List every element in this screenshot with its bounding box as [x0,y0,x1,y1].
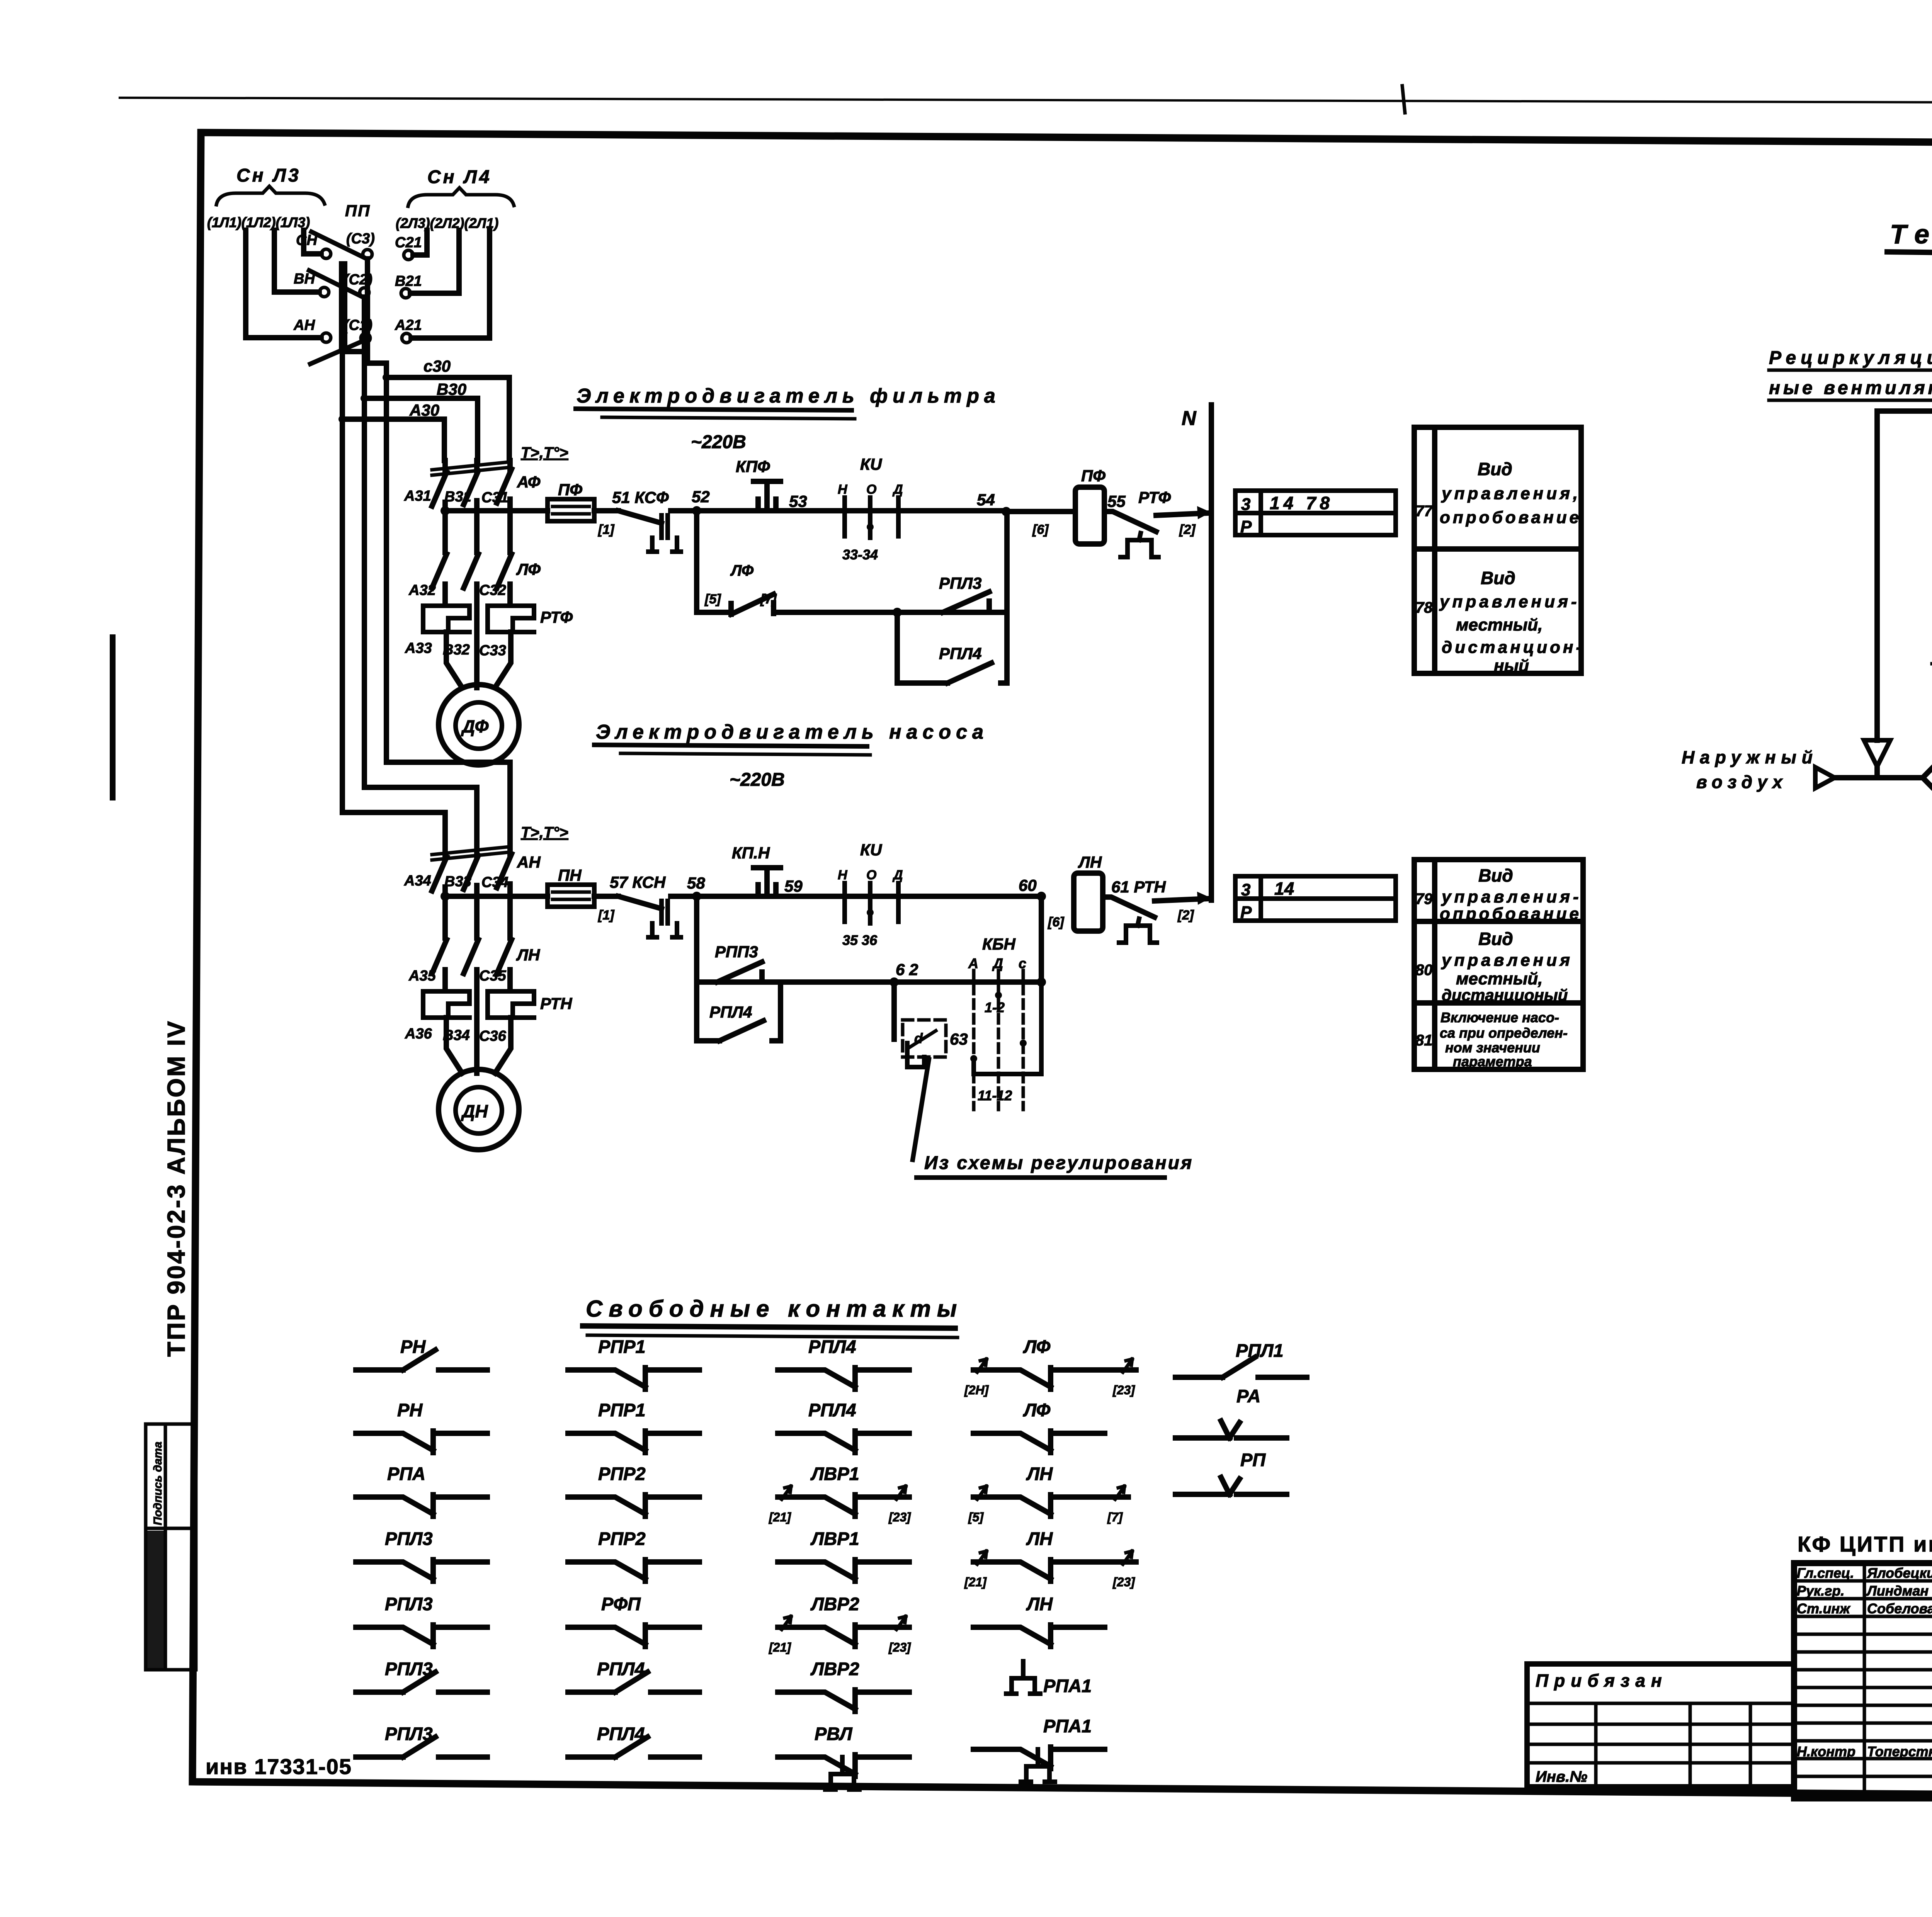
svg-text:дистанционый: дистанционый [1442,986,1568,1004]
main duct to filter [1835,775,1923,780]
svg-text:ПФ: ПФ [558,481,582,499]
wire А30 [342,419,444,461]
junction c30 [383,374,390,381]
brace Сн Л4 [408,188,514,206]
svg-text:А35: А35 [408,968,436,984]
svg-text:(1Л1)(1Л2)(1Л3): (1Л1)(1Л2)(1Л3) [207,214,310,230]
rung wire [594,894,618,899]
svg-text:N: N [1182,407,1197,430]
svg-text:А21: А21 [395,317,422,333]
rung wire left [445,894,548,899]
svg-text:Свободные контакты: Свободные контакты [586,1296,963,1322]
recirculation return duct vertical [1874,411,1880,740]
svg-text:ЛН: ЛН [1026,1594,1053,1614]
main title block outline [1794,1563,1932,1798]
svg-text:РА: РА [1236,1386,1260,1406]
svg-text:КБН: КБН [982,935,1016,953]
terminal circles [321,249,331,258]
outside air intake arrow [1815,767,1835,788]
svg-text:61 РТН: 61 РТН [1111,878,1166,896]
return wire to N [1156,513,1209,515]
svg-text:[23]: [23] [888,1640,911,1654]
svg-text:ЛФ: ЛФ [516,560,541,578]
motor ДФ [439,685,519,765]
ЛН main contact C [497,940,512,991]
svg-text:РПР2: РПР2 [598,1528,646,1549]
contactor blade C [497,461,512,512]
svg-text:инв 17331-05: инв 17331-05 [206,1754,352,1779]
svg-text:опробование: опробование [1440,508,1582,527]
wire up from КБН line to rung [1039,896,1044,982]
svg-text:РПП3: РПП3 [715,943,758,961]
knife blade 3 [310,342,362,364]
svg-text:В33: В33 [444,874,471,890]
svg-text:ЛН: ЛН [516,946,541,964]
svg-text:~220В: ~220В [691,432,746,452]
svg-text:58: 58 [687,874,705,892]
svg-text:ные вентиляторы: ные вентиляторы [1769,378,1932,398]
svg-text:РТН: РТН [540,994,573,1013]
РТФ contact blade [1104,512,1156,532]
return wire to N pump [1155,899,1209,901]
svg-text:В31: В31 [444,489,471,505]
РТФ thermal symbol [1121,533,1158,557]
svg-text:С34: С34 [481,874,509,891]
svg-text:РПЛ4: РПЛ4 [808,1400,856,1420]
svg-text:80: 80 [1415,962,1433,979]
knife blade 2 [309,270,361,296]
svg-text:Собелова: Собелова [1867,1601,1932,1616]
svg-text:Из схемы регулирования: Из схемы регулирования [924,1153,1193,1173]
svg-text:~220В: ~220В [730,770,785,790]
svg-text:Линдман: Линдман [1866,1583,1929,1599]
brace Сн Л3 [216,186,325,205]
ПФ main contact A [432,554,447,605]
svg-text:КU: КU [860,455,883,473]
svg-text:ном значении: ном значении [1445,1040,1540,1055]
svg-text:ный: ный [1494,656,1529,675]
sensor б3 wire down [891,982,897,1039]
svg-text:РПР1: РПР1 [598,1400,646,1420]
svg-text:РПА1: РПА1 [1043,1716,1092,1736]
svg-text:О: О [866,482,876,497]
rung wire through button [697,894,1041,899]
signature columns [1794,1563,1932,1798]
fuse ПФ [548,499,594,521]
bypass left vertical [694,511,699,612]
svg-text:ПН: ПН [558,866,582,884]
svg-text:Р: Р [1240,903,1252,922]
svg-text:РН: РН [400,1336,426,1357]
svg-text:[2]: [2] [1177,908,1194,923]
svg-text:РПЛ3: РПЛ3 [939,574,981,592]
svg-text:[6]: [6] [1032,522,1049,537]
svg-text:воздух: воздух [1696,772,1787,792]
svg-text:6 2: 6 2 [896,960,918,979]
svg-text:Н: Н [838,482,848,497]
svg-text:3: 3 [1241,880,1250,899]
wire В21 to 2Л2 [410,230,459,293]
svg-text:С21: С21 [395,235,422,251]
thermal element РТФ right [488,606,534,632]
svg-text:Электродвигатель фильтра: Электродвигатель фильтра [577,385,1000,407]
svg-text:управления-: управления- [1441,887,1582,906]
junction at КБН [1037,977,1046,987]
ПФ main contact B [464,554,478,657]
svg-text:РПР2: РПР2 [598,1463,646,1484]
svg-text:79: 79 [1415,891,1433,908]
junction РПЛ4 branch [893,608,902,617]
svg-text:Ялобецкий: Ялобецкий [1867,1565,1932,1581]
wire С1 down [342,343,366,352]
svg-text:Д: Д [892,868,903,882]
svg-text:Н: Н [838,868,848,882]
rung wire [671,894,697,899]
coil ПФ [1075,487,1104,544]
svg-text:d: d [914,1030,923,1046]
svg-text:ЛФ: ЛФ [730,562,754,579]
junction A30 [338,415,346,423]
svg-text:Рециркуляцион-: Рециркуляцион- [1769,348,1932,368]
РПЛ4 loop left vertical pump [694,982,699,1041]
svg-text:А34: А34 [404,873,431,889]
svg-text:ДФ: ДФ [461,716,489,736]
svg-text:С36: С36 [479,1028,507,1044]
wire С3 down [367,259,386,363]
drawing frame [192,133,1932,1799]
svg-text:А33: А33 [405,640,432,656]
svg-text:59: 59 [784,877,803,895]
svg-text:Гл.спец.: Гл.спец. [1797,1565,1854,1581]
svg-text:ДН: ДН [461,1101,488,1121]
left margin small table [146,1424,196,1670]
left margin stamp bar [110,634,116,800]
motor feed wires [446,632,511,688]
wire С21 to 2Л3 [413,230,427,255]
switch ПП bar [339,261,347,351]
svg-text:РН: РН [397,1400,423,1420]
thermal element РТН right [488,991,534,1018]
svg-text:Электродвигатель насоса: Электродвигатель насоса [596,721,988,743]
svg-text:81: 81 [1415,1032,1433,1049]
svg-text:КП.Н: КП.Н [732,844,770,862]
svg-text:Вид: Вид [1478,929,1513,949]
ПФ main contact C [497,554,512,605]
bus A phase [342,352,445,841]
svg-text:52: 52 [692,488,710,506]
svg-text:А36: А36 [405,1026,432,1042]
svg-text:[21]: [21] [769,1640,791,1654]
svg-text:С35: С35 [479,968,507,984]
svg-text:Сн Л4: Сн Л4 [427,167,492,187]
svg-text:местный,: местный, [1456,969,1543,988]
svg-text:управления,: управления, [1441,484,1581,503]
phase columns down to ЛН contacts [445,896,510,938]
contactor blade A [432,461,447,512]
svg-text:РПЛ3: РПЛ3 [385,1528,433,1549]
top tick mark [1402,86,1405,113]
svg-text:35 36: 35 36 [842,932,878,948]
wire 1Л1 to АН [246,230,321,338]
svg-text:ПП: ПП [345,202,371,220]
ЛН main contact B [464,940,478,1042]
svg-text:Т>,Т°>: Т>,Т°> [521,444,568,461]
svg-text:РПЛ4: РПЛ4 [709,1003,752,1021]
phase columns down to ПФ contacts [445,511,510,552]
svg-text:КПФ: КПФ [736,457,770,476]
КБН dashed verticals [974,970,1023,1110]
РПЛ4 loop bottom pump [697,982,781,1041]
svg-text:63: 63 [950,1030,968,1048]
svg-text:[5]: [5] [968,1510,984,1524]
РПП3 contact blade [717,962,762,982]
svg-text:Вид: Вид [1478,865,1513,885]
recirculation return duct horizontal [1877,408,1932,414]
svg-text:(2Л3)(2Л2)(2Л1): (2Л3)(2Л2)(2Л1) [396,215,498,231]
svg-text:РПА1: РПА1 [1043,1676,1092,1696]
svg-text:3: 3 [1241,495,1250,514]
svg-text:опробование: опробование [1440,904,1582,923]
РПЛ4 loop bottom wire [897,663,1007,683]
svg-text:О: О [866,868,876,882]
bypass wire 62 [697,979,1041,985]
svg-text:А31: А31 [404,488,431,504]
damper symbol [1864,740,1890,766]
svg-text:РПЛ3: РПЛ3 [385,1594,433,1614]
КБН bottom wire [974,982,1041,1074]
svg-text:РТФ: РТФ [1138,488,1171,506]
svg-text:дистанцион-: дистанцион- [1442,638,1584,657]
contactor blade A [432,841,447,897]
РПЛ3 contact blade [943,592,989,612]
svg-text:Вид: Вид [1481,568,1515,588]
svg-text:Инв.№: Инв.№ [1536,1768,1587,1785]
junction 62 node [889,977,899,987]
fuse ПН [548,885,594,907]
junction node 54 [1002,507,1011,516]
coil ЛН [1074,873,1103,931]
wire С2 down [362,297,367,398]
svg-text:С31: С31 [481,489,509,506]
svg-text:ЛВР1: ЛВР1 [810,1528,859,1549]
svg-text:Наружный: Наружный [1682,747,1818,767]
svg-text:АН: АН [293,317,315,333]
svg-text:КU: КU [860,841,883,859]
svg-text:11-12: 11-12 [978,1088,1012,1103]
junction node 60 [1037,892,1046,901]
rung wire left [445,508,548,513]
svg-text:Вид: Вид [1478,459,1512,479]
svg-text:КФ ЦИТП инв.17331-05: КФ ЦИТП инв.17331-05 [1798,1532,1932,1556]
rung wire [594,508,618,513]
svg-text:РВЛ: РВЛ [815,1723,853,1744]
svg-text:Р: Р [1240,517,1252,536]
bus B phase [364,398,477,841]
svg-text:ЛН: ЛН [1078,853,1102,871]
svg-text:ЛФ: ЛФ [1023,1400,1051,1420]
ЛН main contact A [432,940,447,991]
sensor box dashed [903,1020,946,1057]
svg-text:57 КСН: 57 КСН [610,873,666,891]
svg-text:В21: В21 [395,273,422,289]
svg-text:управления-: управления- [1439,592,1580,611]
svg-text:Технологическая: Технологическая [1890,219,1932,249]
svg-text:[21]: [21] [769,1510,791,1524]
svg-text:77: 77 [1415,503,1433,520]
svg-text:РПР1: РПР1 [598,1336,646,1357]
svg-text:ЛВР2: ЛВР2 [810,1659,859,1679]
bypass right vertical [1004,512,1010,683]
svg-text:С33: С33 [479,642,506,659]
svg-text:Д: Д [892,482,903,497]
svg-text:Топерсткая: Топерсткая [1867,1744,1932,1759]
filter diamond [1923,736,1932,819]
sensor bottom wire [907,1043,924,1067]
svg-text:[23]: [23] [1112,1383,1135,1397]
motor feed wires pump [446,1018,511,1073]
svg-text:33-34: 33-34 [842,547,878,563]
svg-text:78: 78 [1415,599,1433,616]
selector КU stubs pump [845,883,898,923]
svg-text:Включение насо-: Включение насо- [1440,1009,1559,1025]
svg-text:А30: А30 [409,401,439,419]
svg-text:РФП: РФП [601,1594,641,1614]
svg-text:ТПР 904-02-3 АЛЬБОМ IV: ТПР 904-02-3 АЛЬБОМ IV [162,1020,190,1357]
rung wire [671,508,697,513]
svg-text:ЛВР1: ЛВР1 [810,1463,859,1484]
junction node 52 [692,506,701,515]
switch КСН [618,896,662,909]
svg-text:[7]: [7] [1107,1510,1123,1524]
svg-text:АН: АН [517,853,541,871]
rung wire through button [697,508,1006,513]
svg-text:[2Н]: [2Н] [964,1383,989,1397]
svg-text:(С3): (С3) [346,231,375,247]
wire 1Л2 to ВН [274,230,319,292]
svg-text:51 КСФ: 51 КСФ [612,488,669,506]
knife blade 1 [311,232,364,257]
svg-text:ЛФ: ЛФ [1023,1336,1051,1357]
svg-text:АФ: АФ [517,473,541,491]
РТН thermal symbol [1119,919,1157,943]
wire 1Л3 to СН [304,230,321,254]
junction rung start [440,506,450,515]
РПЛ4 loop left vertical [895,612,900,683]
svg-text:РПА: РПА [387,1463,425,1484]
junction B30 [361,394,368,402]
svg-text:14: 14 [1274,879,1294,899]
svg-text:60: 60 [1019,876,1037,894]
svg-text:Рук.гр.: Рук.гр. [1797,1583,1845,1599]
svg-text:[1]: [1] [598,522,615,537]
svg-text:РП: РП [1240,1450,1266,1470]
svg-text:управления: управления [1441,951,1573,970]
svg-text:55: 55 [1107,492,1126,510]
svg-text:ПФ: ПФ [1081,467,1105,485]
selector КU stubs [845,498,898,538]
rung wire to coil [1006,509,1075,514]
wire c30 [386,377,509,461]
svg-text:1-2: 1-2 [985,999,1005,1015]
svg-text:Ст.инж: Ст.инж [1797,1601,1851,1616]
svg-text:Сн Л3: Сн Л3 [236,165,301,186]
svg-text:В30: В30 [437,380,466,398]
svg-text:А32: А32 [408,582,436,598]
svg-text:местный,: местный, [1456,615,1543,634]
svg-text:РПЛ1: РПЛ1 [1236,1340,1284,1361]
svg-text:[6]: [6] [1048,915,1065,930]
contactor blade B [464,841,478,897]
junction node 58 [692,892,701,901]
svg-text:[23]: [23] [1112,1575,1135,1589]
contactor link bar ЛФ [432,462,509,470]
wire В30 [364,398,478,461]
sensor contact inside [909,1031,936,1048]
svg-text:са при определен-: са при определен- [1440,1025,1568,1041]
svg-text:[21]: [21] [964,1575,987,1589]
bus C phase [386,363,510,841]
svg-text:ЛВР2: ЛВР2 [810,1594,859,1614]
svg-text:14 78: 14 78 [1270,493,1333,513]
svg-text:С32: С32 [479,582,506,598]
svg-text:[23]: [23] [888,1510,911,1524]
svg-text:параметра: параметра [1453,1054,1532,1069]
thermal element РТН left [423,991,469,1018]
sheet top thin line [120,98,1932,104]
svg-text:[1]: [1] [598,908,615,923]
contactor link bar АН [432,847,509,855]
svg-text:Т>,Т°>: Т>,Т°> [521,824,568,841]
svg-text:с30: с30 [423,357,451,375]
contactor blade C [497,841,512,897]
svg-text:53: 53 [789,492,807,510]
switch КСФ [618,511,662,523]
thermal element РТФ left [423,606,469,632]
svg-text:ЛН: ЛН [1026,1528,1053,1549]
svg-text:РПЛ4: РПЛ4 [808,1336,856,1357]
svg-text:Прибязан: Прибязан [1536,1671,1668,1691]
junction pump rung start [440,892,450,901]
svg-text:[5]: [5] [704,592,721,607]
contactor blade B [464,461,478,512]
svg-text:Подпись дата: Подпись дата [151,1441,164,1525]
left margin dark cell [147,1531,166,1668]
svg-text:[7]: [7] [760,592,777,607]
svg-text:ЛН: ЛН [1026,1463,1053,1484]
motor ДН [439,1069,519,1150]
svg-text:РПЛ4: РПЛ4 [939,644,981,663]
svg-text:[2]: [2] [1179,522,1196,537]
РТН contact blade [1103,897,1155,917]
bypass wire [697,610,731,615]
svg-text:54: 54 [977,491,995,509]
svg-text:РТФ: РТФ [540,608,573,626]
bypass wire mid [774,610,1007,615]
svg-text:Н.контр: Н.контр [1797,1744,1855,1759]
wire А21 to 2Л1 [411,230,490,338]
